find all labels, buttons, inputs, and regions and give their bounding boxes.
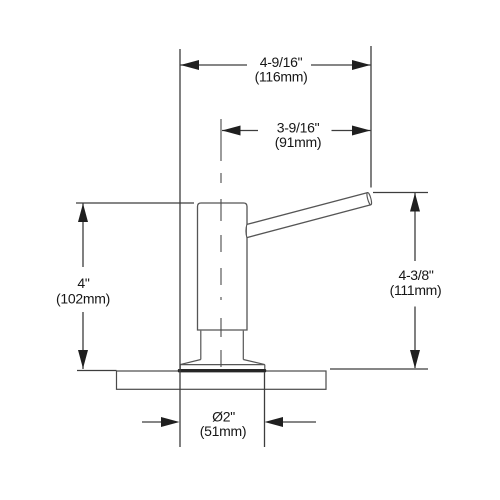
countertop [117, 371, 327, 389]
arrow down of 4 inch [78, 350, 88, 369]
flange collar [180, 365, 265, 370]
svg-text:(111mm): (111mm) [390, 282, 442, 298]
arrow into left of diameter 2 [161, 417, 180, 427]
dimension diameter 2 left leader [142, 421, 162, 423]
spout top edge [247, 193, 368, 225]
extension line flange right below counter (x=264.5) [264, 372, 266, 447]
dimension 4-3/8 line [414, 193, 416, 368]
extension line left (flange edge, x=180) [179, 49, 181, 447]
arrow left of 4-9/16 [181, 60, 200, 70]
arrow up of 4 inch [78, 204, 88, 223]
extension line top of 4 inch [76, 202, 194, 204]
arrow into right of diameter 2 [265, 417, 284, 427]
flange cone [180, 360, 265, 365]
svg-text:4": 4" [77, 275, 89, 291]
arrow right of 4-9/16 [352, 60, 371, 70]
shank [201, 331, 244, 360]
arrow left of 3-9/16 [222, 126, 241, 136]
extension line spout tip (x=371) [370, 46, 372, 188]
extension line bottom of 4-3/8 [330, 368, 428, 370]
dimension 3-9/16 line [222, 130, 371, 132]
arrow right of 3-9/16 [352, 126, 371, 136]
dimension 4-9/16 line [180, 64, 371, 66]
spout [247, 193, 371, 238]
dimension diameter 2 right leader [283, 421, 317, 423]
svg-text:(51mm): (51mm) [200, 423, 246, 439]
svg-text:(91mm): (91mm) [275, 134, 321, 150]
centerline [220, 119, 222, 371]
pump body [198, 203, 248, 330]
arrow down of 4-3/8 [410, 350, 420, 369]
spout tip cap [366, 192, 372, 205]
dimension 4 inch line [82, 203, 84, 369]
svg-text:(102mm): (102mm) [56, 291, 110, 307]
svg-text:(116mm): (116mm) [255, 69, 308, 85]
gasket [178, 369, 266, 372]
extension line top of 4-3/8 [373, 192, 428, 194]
spout root curve [246, 224, 247, 237]
extension line bottom of 4 inch [77, 370, 117, 372]
spout bottom edge [247, 205, 371, 238]
arrow up of 4-3/8 [410, 193, 420, 212]
svg-text:4-3/8": 4-3/8" [398, 267, 433, 283]
